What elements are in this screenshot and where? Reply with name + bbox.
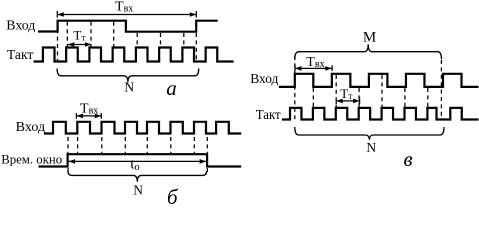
svg-text:Tт: Tт <box>73 27 86 43</box>
svg-text:а: а <box>166 76 177 100</box>
dashed line at clock rise x=91 (diagram a) <box>90 22 92 47</box>
dashed line at window closing x=207.3 (diagram b) <box>206 137 208 175</box>
dashed line at clock rise x=313.3 (diagram v) <box>312 88 314 107</box>
dimension line T_т (diagram a) <box>68 42 92 47</box>
brace N span (diagram v) <box>295 127 444 140</box>
dashed line at clock rise x=336.2 (diagram v) <box>335 75 337 107</box>
dimension line T_вх (diagram a) <box>57 11 196 18</box>
svg-text:N: N <box>133 183 143 198</box>
clock waveform (diagram v) <box>282 108 479 120</box>
svg-text:Вход: Вход <box>16 120 45 135</box>
dimension line T_вх (diagram b) <box>76 113 101 119</box>
svg-text:Tвх: Tвх <box>80 101 98 116</box>
svg-text:Такт: Такт <box>7 48 34 63</box>
dashed line at clock rise x=113.7 (diagram a) <box>113 22 115 47</box>
dashed line at clock rise x=427.8 (diagram v) <box>427 88 429 107</box>
brace M span (diagram v) <box>295 44 442 59</box>
svg-text:б: б <box>167 185 179 207</box>
dashed line at input rising edge x=57.5 (diagram a) <box>57 22 59 61</box>
dashed line at clock rise x=359.1 (diagram v) <box>358 88 360 107</box>
dimension line T_вх (diagram v) <box>295 65 332 71</box>
input waveform (diagram b) <box>44 122 241 134</box>
dashed line at input rise x=147.3 (diagram b) <box>146 137 148 153</box>
svg-text:M: M <box>363 30 376 46</box>
dimension line t_о (diagram b) <box>69 159 207 164</box>
svg-text:N: N <box>366 140 376 155</box>
svg-text:Tвх: Tвх <box>115 0 133 14</box>
input waveform (diagram v) <box>279 74 479 87</box>
brace N span (diagram a) <box>57 69 199 83</box>
dashed line at clock rise x=67.3 (diagram a) <box>66 22 68 47</box>
dashed line at clock rise x=404.9 (diagram v) <box>404 88 406 107</box>
brace N span (diagram b) <box>68 171 207 182</box>
dimension line T_т (diagram v) <box>336 97 359 104</box>
svg-text:Tвх: Tвх <box>306 55 324 70</box>
dashed line at input rising edge x=196.3 (diagram a) <box>195 33 197 61</box>
svg-text:Врем. окно: Врем. окно <box>1 151 62 166</box>
time-window waveform (diagram b) <box>39 154 242 166</box>
dashed line at first input rise x=294.8 (diagram v) <box>294 56 296 120</box>
dashed line at clock rise x=137.2 (diagram a) <box>136 33 138 47</box>
dashed line at window opening x=68 (diagram b) <box>67 137 69 153</box>
svg-text:Вход: Вход <box>6 19 35 34</box>
svg-text:Такт: Такт <box>256 108 281 123</box>
dashed line at clock rise x=382 (diagram v) <box>381 75 383 107</box>
clock waveform (diagram a) <box>34 48 234 62</box>
dashed line at input rise x=194.3 (diagram b) <box>193 137 195 153</box>
dashed line at input rise x=170.8 (diagram b) <box>170 137 172 153</box>
svg-text:N: N <box>124 80 134 95</box>
dashed line at input rise x=77.6 (diagram b) <box>77 137 79 153</box>
dashed line at input rise x=101.8 (diagram b) <box>101 137 103 153</box>
dashed line at clock rise x=160.5 (diagram a) <box>160 33 162 47</box>
svg-text:в: в <box>403 147 412 171</box>
svg-text:Tт: Tт <box>340 86 353 102</box>
dashed line at input rise x=125.3 (diagram b) <box>124 137 126 153</box>
input waveform (diagram a) <box>38 21 218 32</box>
svg-text:tо: tо <box>130 157 139 173</box>
dashed line at last input rise x=443 (diagram v) <box>440 60 442 120</box>
dashed line below window opening x=68 (diagram b) <box>67 168 69 175</box>
svg-text:Вход: Вход <box>250 72 278 87</box>
dashed line at clock rise x=183.8 (diagram a) <box>183 33 185 47</box>
